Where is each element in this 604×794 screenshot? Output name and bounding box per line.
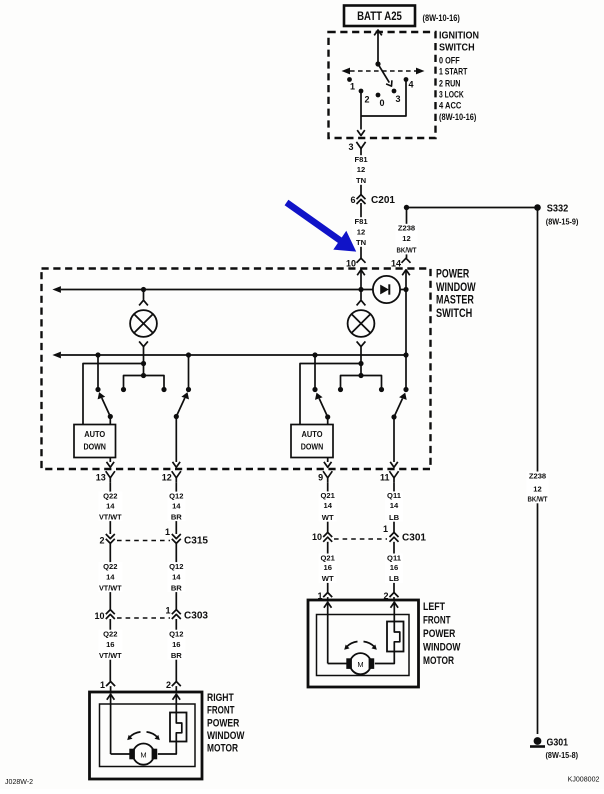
svg-text:C303: C303 [184,611,208,622]
svg-text:Q22: Q22 [103,562,117,571]
node line1 left lamp [141,287,146,292]
pin 14 connector into master switch [391,258,411,268]
svg-text:Q11: Q11 [387,491,402,500]
wiper right-down (driver) [391,393,406,420]
ignition contact 4 [404,77,414,89]
battery feed box BATT A25 [344,6,415,27]
contact D (passenger down) [186,387,191,392]
svg-text:Q22: Q22 [103,491,117,500]
svg-text:12: 12 [162,473,172,483]
svg-text:S332: S332 [547,204,569,215]
svg-text:Q22: Q22 [103,630,117,639]
svg-text:Q21: Q21 [321,553,336,562]
svg-text:14: 14 [390,501,399,510]
ignition contact 0 [376,93,385,108]
svg-text:TN: TN [356,238,366,247]
circuit breaker left front motor [375,622,404,664]
wiper left-up (passenger) [98,392,113,419]
svg-text:14: 14 [172,573,181,582]
svg-text:2: 2 [364,95,369,105]
connector C303 dashed link [117,617,170,619]
connector C201 pin 6 [350,195,395,206]
left front power window motor housing [308,600,419,687]
pin 14 entry arrow / wire to right contact [402,270,410,390]
svg-text:C301: C301 [402,533,426,544]
wire contact 2 and 4 to output [357,80,406,136]
pin 10 entry arrow [357,270,365,290]
svg-text:Z238: Z238 [529,471,546,480]
power window master switch enclosure (dashed) [42,269,431,470]
wire Q12 14 BR upper [167,483,185,534]
svg-text:1: 1 [165,527,170,537]
motor M right front [129,744,157,765]
contact D (driver down) [403,387,408,392]
wire Z238 12 BK/WT ground run [527,208,549,735]
svg-text:AUTO: AUTO [84,430,105,439]
indicator diode D1 (circle) [373,276,400,303]
pin 13 exit arrow [107,458,115,468]
splice node on Z238 [404,205,409,210]
svg-text:C315: C315 [184,536,208,547]
svg-text:0: 0 [379,98,384,108]
svg-text:1: 1 [165,606,170,616]
svg-text:12: 12 [402,234,410,243]
svg-text:2 RUN: 2 RUN [439,78,461,88]
svg-text:(8W-10-16): (8W-10-16) [439,112,476,122]
svg-text:Q12: Q12 [169,491,183,500]
rotation arrows right front motor [127,732,160,740]
illumination lamp left [130,290,157,376]
wiper right-up (driver) [315,393,330,420]
footer sheet code J028W-2 [5,777,33,786]
wire Q22 14 VT/WT lower [98,543,122,609]
wire Z238 12 BK/WT to pin 14 [396,208,418,259]
node line2 right contact D [403,352,408,357]
illumination lamp right [348,290,375,376]
ground G301 [530,737,578,760]
svg-text:1: 1 [100,680,105,690]
svg-text:SWITCH: SWITCH [436,306,472,320]
label (8W-10-16) battery [423,13,460,23]
svg-text:POWER: POWER [436,266,469,280]
wire F81 12 TN lower [352,203,370,258]
svg-text:WT: WT [322,574,334,583]
node line2 right contact A [312,352,317,357]
footer code KJ008002 [568,775,600,784]
label LEFT FRONT POWER WINDOW MOTOR [423,601,461,667]
svg-text:C201: C201 [371,195,395,206]
ignition rotation range (dashed line with arrows) [342,68,425,75]
node line1 pin10 [358,287,363,292]
ignition contact 1 [347,77,355,91]
wire F81 12 TN upper [352,154,370,195]
center contacts B C (passenger) [121,376,167,393]
wire junction to auto-down left [83,364,144,425]
auto down module right [291,417,333,458]
svg-text:1 START: 1 START [439,67,468,77]
svg-text:KJ008002: KJ008002 [568,775,600,784]
svg-text:WINDOW: WINDOW [423,641,461,653]
svg-text:WINDOW: WINDOW [207,730,245,742]
svg-text:MASTER: MASTER [436,293,474,307]
pin 13 connector below master switch [96,471,115,483]
svg-text:BR: BR [171,583,182,592]
blue callout arrow [285,200,357,252]
connector C303 pin 1 [165,606,208,622]
center contacts B C (driver) [338,376,384,393]
wire ignition rotor to battery (arrow up) [374,30,382,64]
junction node left lamp feed [141,361,146,366]
motor pin 2 wire right front [173,694,181,713]
wire to contact A [97,355,99,390]
svg-text:Q12: Q12 [169,562,183,571]
node line2 left contact A [95,352,100,357]
wire Q11 14 LB [385,483,403,532]
svg-text:9: 9 [318,473,323,483]
svg-text:13: 13 [96,473,106,483]
wire Q21 14 WT [319,483,337,532]
svg-text:14: 14 [172,502,181,511]
connector C301 dashed link [334,538,387,540]
svg-text:MOTOR: MOTOR [423,655,454,667]
pin 9 connector below master switch [318,471,332,483]
svg-text:MOTOR: MOTOR [207,743,238,755]
pin 3 connector at ignition output [348,142,365,154]
svg-text:G301: G301 [547,738,569,749]
connector C303 pin 10 [94,610,114,621]
ignition rotor wiper to contact 3 [378,64,394,88]
svg-text:(8W-15-9): (8W-15-9) [546,218,579,227]
svg-text:SWITCH: SWITCH [439,41,475,53]
pin 10 connector into master switch [346,258,366,268]
wire Q12 16 BR [167,619,185,681]
svg-text:12: 12 [533,484,541,493]
connector C301 pin 1 [383,524,426,544]
connector C315 pin 2 [99,534,114,545]
label IGNITION SWITCH [439,31,479,54]
svg-text:BR: BR [171,512,182,521]
svg-text:DOWN: DOWN [301,443,324,452]
pin 12 connector below master switch [162,471,181,483]
pin 2 connector left front motor [383,591,398,601]
svg-text:2: 2 [166,680,171,690]
pin 2 connector right front motor [166,680,181,692]
svg-text:Z238: Z238 [398,224,415,233]
svg-text:12: 12 [357,165,365,174]
svg-text:VT/WT: VT/WT [99,583,122,592]
svg-text:16: 16 [323,563,331,572]
svg-text:11: 11 [380,473,390,483]
svg-text:M: M [357,660,363,669]
svg-text:3: 3 [395,94,400,104]
svg-text:10: 10 [312,532,322,542]
svg-text:16: 16 [172,640,180,649]
svg-text:LEFT: LEFT [423,601,445,613]
svg-text:14: 14 [106,573,115,582]
svg-text:DOWN: DOWN [83,443,106,452]
svg-text:16: 16 [106,640,114,649]
svg-text:LB: LB [389,513,400,522]
svg-text:1: 1 [383,524,388,534]
node line1 pin14 [403,287,408,292]
wiper left-down (passenger) [174,392,189,419]
ignition contact 3 [392,89,401,104]
wire Q11 16 LB [385,542,403,593]
circuit breaker right front motor [158,713,187,755]
wire Q22 14 VT/WT upper [98,483,122,534]
svg-text:10: 10 [346,259,356,269]
svg-text:WT: WT [322,513,334,522]
wire splice to S332 [407,207,538,209]
svg-text:0 OFF: 0 OFF [439,55,460,65]
svg-text:3: 3 [348,142,353,152]
wire Q12 14 BR lower [167,543,185,609]
label POWER WINDOW MASTER SWITCH [436,266,476,320]
motor pin 2 wire left front [391,602,399,622]
svg-text:4 ACC: 4 ACC [439,101,462,111]
svg-text:M: M [140,750,146,759]
svg-text:14: 14 [106,502,115,511]
wire Q22 16 VT/WT [98,619,122,681]
bus wire line 2 (common feed) [52,352,406,359]
svg-text:Q11: Q11 [387,553,402,562]
svg-text:16: 16 [390,563,398,572]
svg-text:2: 2 [99,535,104,545]
svg-text:(8W-10-16): (8W-10-16) [423,13,460,23]
motor M left front [346,653,374,674]
contact A (passenger up) [95,387,100,392]
pin 12 exit arrow [173,417,181,468]
svg-text:FRONT: FRONT [423,614,451,626]
svg-text:BATT A25: BATT A25 [357,9,402,23]
svg-text:WINDOW: WINDOW [436,280,476,294]
svg-text:LB: LB [389,574,400,583]
motor pin 1 wire right front [107,694,130,755]
svg-text:F81: F81 [354,155,368,164]
junction node right lamp feed [358,361,363,366]
wire Q21 16 WT [319,542,337,593]
pin 11 connector below master switch [380,471,399,483]
ignition switch enclosure (dashed) [329,32,436,138]
svg-text:VT/WT: VT/WT [99,512,122,521]
ignition switch position list [439,55,476,122]
svg-text:4: 4 [408,80,413,90]
label RIGHT FRONT POWER WINDOW MOTOR [207,692,245,755]
node line2 left contact D [186,352,191,357]
splice S332 [534,204,579,227]
connector C301 pin 10 [312,532,332,542]
pin 9 exit arrow [324,458,332,468]
svg-text:F81: F81 [354,217,368,226]
ignition rotor pivot node [375,61,380,66]
svg-text:(8W-15-8): (8W-15-8) [546,751,579,760]
connector C315 dashed link [117,540,170,542]
center feed node left [141,373,146,378]
center feed node right [358,373,363,378]
svg-text:BK/WT: BK/WT [528,495,548,504]
svg-text:Q12: Q12 [169,630,183,639]
connector C315 pin 1 [165,527,208,547]
svg-text:RIGHT: RIGHT [207,692,234,704]
svg-text:FRONT: FRONT [207,705,235,717]
svg-text:IGNITION: IGNITION [439,31,479,42]
svg-text:1: 1 [350,82,355,92]
svg-text:J028W-2: J028W-2 [5,777,33,786]
svg-text:BK/WT: BK/WT [397,246,417,255]
pin 1 connector left front motor [317,591,332,601]
svg-text:AUTO: AUTO [302,430,323,439]
rotation arrows left front motor [344,642,377,650]
wire to contact D [188,355,190,390]
wire to contact A driver [314,355,316,390]
svg-text:14: 14 [391,259,401,269]
svg-text:3 LOCK: 3 LOCK [439,90,464,100]
right front power window motor housing [90,692,203,779]
auto down module left [74,417,116,458]
pin 1 connector right front motor [100,680,115,692]
wire junction to auto-down right [300,364,361,425]
motor pin 1 wire left front [324,602,347,664]
svg-text:14: 14 [323,501,332,510]
svg-text:TN: TN [356,176,366,185]
svg-text:VT/WT: VT/WT [99,651,122,660]
pin 11 exit arrow [390,417,398,467]
svg-text:Q21: Q21 [321,491,336,500]
svg-text:10: 10 [94,611,104,621]
ignition contact 2 [359,89,370,105]
bus wire line 1 (illumination feed) [52,286,406,293]
svg-text:BR: BR [171,651,182,660]
svg-text:6: 6 [350,195,355,205]
contact A (driver up) [312,387,317,392]
svg-text:12: 12 [357,228,365,237]
svg-text:POWER: POWER [207,717,239,729]
svg-text:POWER: POWER [423,628,455,640]
